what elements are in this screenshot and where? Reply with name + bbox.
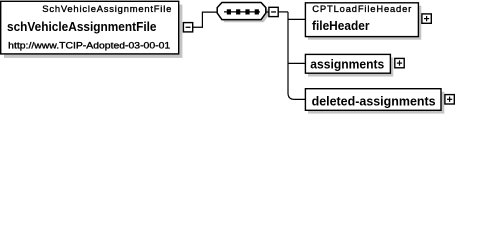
wire octagon to minus [266,11,269,13]
wire minus to trunk [278,11,288,13]
svg-text:SchVehicleAssignmentFile: SchVehicleAssignmentFile [42,3,171,14]
svg-text:assignments: assignments [310,58,384,72]
element box assignments [305,54,393,76]
svg-text:CPTLoadFileHeader: CPTLoadFileHeader [312,3,411,14]
collapse button (minus) after compositor [269,7,278,16]
element box deleted-assignments [305,89,444,114]
element box fileHeader : CPTLoadFileHeader [305,3,421,40]
trunk with rounded elbow to last child [288,12,305,100]
svg-text:deleted-assignments: deleted-assignments [312,94,436,108]
root element box schVehicleAssignmentFile [1,1,183,58]
svg-text:http://www.TCIP-Adopted-03-00-: http://www.TCIP-Adopted-03-00-01 [8,39,170,50]
wire stub to assignments [288,62,306,64]
collapse button (minus) at root [183,23,192,32]
wire stub to fileHeader [288,18,306,20]
wire from root minus to sequence compositor [193,12,218,27]
sequence compositor octagon [217,3,268,23]
expand button (plus) for assignments [395,58,404,67]
expand button (plus) for fileHeader [422,14,431,23]
svg-text:fileHeader: fileHeader [312,19,370,33]
expand button (plus) for deleted-assignments [445,95,454,104]
svg-text:schVehicleAssignmentFile: schVehicleAssignmentFile [7,20,157,34]
